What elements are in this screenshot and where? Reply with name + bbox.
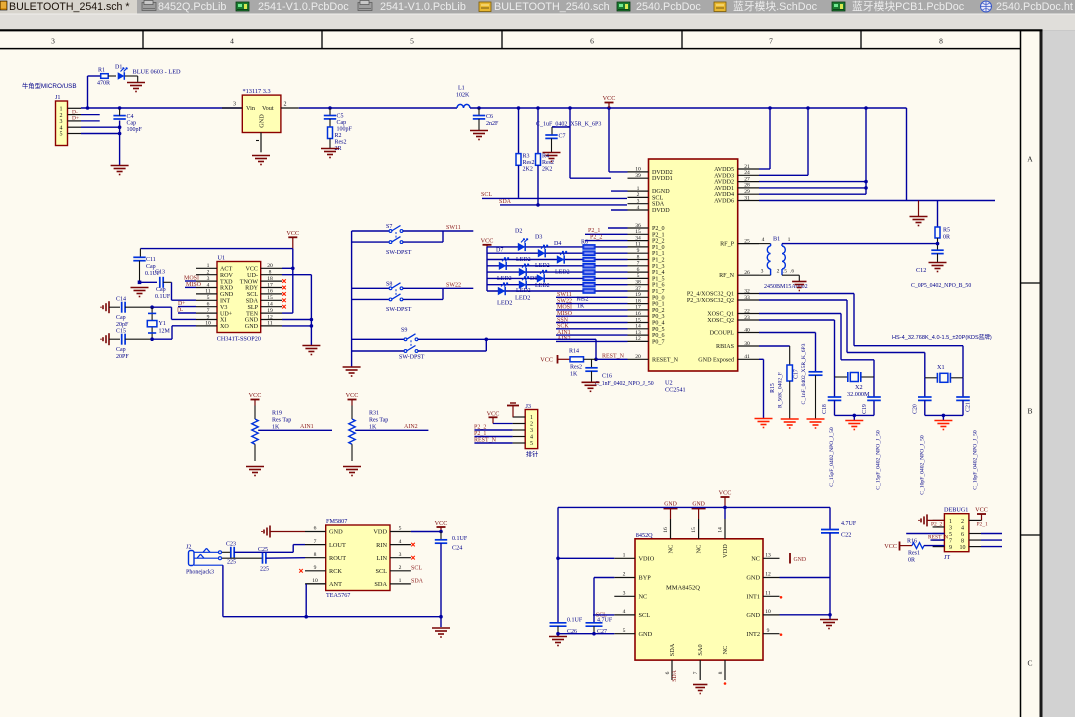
svg-text:RBIAS: RBIAS xyxy=(716,344,735,350)
ground J3 pin1 inverted xyxy=(507,403,519,417)
svg-text:28: 28 xyxy=(744,183,750,189)
MMA8452Q top pins xyxy=(663,519,729,558)
net label MISO U1 xyxy=(185,282,202,288)
svg-text:D+: D+ xyxy=(72,116,79,122)
LED D0 row 0 xyxy=(518,239,528,251)
svg-text:10: 10 xyxy=(960,545,966,551)
wire VBUS main xyxy=(81,106,242,110)
svg-text:GND Exposed: GND Exposed xyxy=(698,357,734,363)
svg-text:C19: C19 xyxy=(862,404,868,414)
svg-text:3: 3 xyxy=(623,591,626,597)
svg-text:5: 5 xyxy=(623,628,626,634)
svg-text:VCC: VCC xyxy=(719,489,732,496)
svg-text:P2_2: P2_2 xyxy=(590,234,602,240)
svg-text:GND: GND xyxy=(794,557,807,563)
svg-text:1: 1 xyxy=(623,553,626,559)
net label REST_N DEBUG xyxy=(928,535,948,541)
svg-text:BULETOOTH_2541.sch *: BULETOOTH_2541.sch * xyxy=(9,1,130,13)
svg-text:C6: C6 xyxy=(486,114,493,120)
svg-text:SW22: SW22 xyxy=(446,282,461,288)
label MICRO/USB xyxy=(22,81,77,90)
svg-text:2: 2 xyxy=(623,572,626,578)
svg-text:C15: C15 xyxy=(116,329,126,335)
wire VCC to U1 pin20 and TEN xyxy=(140,249,294,314)
ground C7 xyxy=(543,153,561,162)
svg-text:SDA: SDA xyxy=(411,578,424,584)
svg-text:RXD: RXD xyxy=(220,286,233,292)
resistor R31 Res Tap xyxy=(349,406,389,462)
svg-text:蓝牙模块.SchDoc: 蓝牙模块.SchDoc xyxy=(733,0,818,13)
svg-text:10: 10 xyxy=(635,167,641,173)
svg-text:15: 15 xyxy=(635,317,641,323)
ground C11 xyxy=(131,288,149,297)
svg-text:0.1UF: 0.1UF xyxy=(155,294,171,300)
svg-text:Cap: Cap xyxy=(337,120,347,126)
crystal Y1 12M xyxy=(147,305,170,339)
svg-text:R16: R16 xyxy=(907,538,917,544)
capacitor C5 with R2 xyxy=(324,106,353,132)
svg-text:5: 5 xyxy=(410,37,414,46)
net label SCL MMA wire xyxy=(593,613,614,619)
inductor L1 xyxy=(456,86,470,109)
svg-text:AVDD5: AVDD5 xyxy=(714,167,734,173)
svg-text:4: 4 xyxy=(399,539,402,545)
ground C24 xyxy=(432,628,450,637)
svg-text:17: 17 xyxy=(267,282,273,288)
svg-text:12: 12 xyxy=(635,336,641,342)
svg-text:C_10pF_0402_NPO_J_50: C_10pF_0402_NPO_J_50 xyxy=(973,430,979,490)
ground switch bus xyxy=(343,367,361,376)
svg-text:C25: C25 xyxy=(258,547,268,553)
svg-text:INT2: INT2 xyxy=(746,631,760,638)
svg-text:225: 225 xyxy=(227,560,236,566)
tab 2541-V1.0.PcbDoc xyxy=(236,1,349,13)
svg-text:RDY: RDY xyxy=(245,286,258,292)
svg-text:2541-V1.0.PcbDoc: 2541-V1.0.PcbDoc xyxy=(258,1,349,13)
svg-text:31: 31 xyxy=(744,195,750,201)
power port VCC MMA xyxy=(719,489,732,507)
ground C12 xyxy=(929,263,947,272)
svg-text:27: 27 xyxy=(744,176,750,182)
net label SW11 wire xyxy=(556,292,628,298)
connector J3 pin header xyxy=(513,403,539,459)
svg-text:4.7UF: 4.7UF xyxy=(841,521,857,527)
svg-text:C7: C7 xyxy=(559,134,566,140)
LED D3 row 3 xyxy=(499,258,509,270)
svg-text:INT: INT xyxy=(220,299,230,305)
capacitor C16 xyxy=(585,359,653,387)
wire U1 pin8 GND to ground xyxy=(282,275,313,345)
svg-text:12: 12 xyxy=(765,572,771,578)
no-connect RCK xyxy=(299,569,303,573)
power port VCC FM xyxy=(435,520,448,532)
net label SDA wire xyxy=(499,199,627,207)
wire Vout to rail xyxy=(299,107,457,109)
wire P1_0 row xyxy=(487,246,628,248)
crystal X1 xyxy=(925,364,963,383)
svg-text:BULETOOTH_2540.sch: BULETOOTH_2540.sch xyxy=(494,1,610,13)
svg-text:AVDD4: AVDD4 xyxy=(714,192,734,198)
svg-text:P2_3/XOSC32_Q2: P2_3/XOSC32_Q2 xyxy=(687,298,734,304)
svg-text:DCOUPL: DCOUPL xyxy=(710,331,735,337)
svg-text:P2_1: P2_1 xyxy=(977,521,989,527)
wire crystal top to XI xyxy=(152,307,196,319)
sheet outer edge right xyxy=(1040,30,1043,717)
svg-text:SCL: SCL xyxy=(411,565,422,571)
wire P1_3 row xyxy=(487,265,628,267)
FM5807 right pins xyxy=(373,526,411,588)
connector J2 Phonejack3 xyxy=(186,545,223,576)
ground DEBUG pin1 sideways xyxy=(919,514,944,526)
LED D1 row 1 xyxy=(538,245,548,257)
svg-text:XOSC_Q1: XOSC_Q1 xyxy=(707,312,734,318)
svg-text:GND: GND xyxy=(259,114,266,128)
svg-text:P2_2: P2_2 xyxy=(652,239,665,245)
svg-text:RF_N: RF_N xyxy=(719,273,735,279)
svg-text:C23: C23 xyxy=(226,542,236,548)
svg-text:Res2: Res2 xyxy=(523,160,535,166)
wire XOSC32 Q2 pin33 to X1 xyxy=(759,300,925,378)
svg-text:GND: GND xyxy=(746,612,760,619)
svg-text:P1_7: P1_7 xyxy=(652,289,665,295)
ground SA0 xyxy=(693,685,707,694)
U1 right pins xyxy=(240,263,282,330)
svg-text:D-: D- xyxy=(72,109,78,115)
wire VDIO xyxy=(556,557,614,623)
capacitor C17 on DCOUPL xyxy=(759,333,823,419)
svg-text:DEBUG1: DEBUG1 xyxy=(944,506,968,513)
svg-text:3: 3 xyxy=(761,268,764,274)
svg-text:SDA: SDA xyxy=(669,643,676,656)
svg-text:LED2: LED2 xyxy=(497,276,512,282)
svg-text:VDIO: VDIO xyxy=(639,556,655,563)
capacitor C21 xyxy=(956,378,978,490)
svg-text:C21: C21 xyxy=(966,402,972,412)
wire DEBUG pin10 xyxy=(969,546,1002,548)
svg-text:Y1: Y1 xyxy=(159,321,166,327)
ground balun xyxy=(792,282,806,291)
svg-text:C13: C13 xyxy=(155,270,165,276)
svg-text:5: 5 xyxy=(949,532,952,538)
power port VCC U1 xyxy=(286,230,299,249)
net label P2_2 DEBUG xyxy=(931,521,943,527)
LED D7 row 7 xyxy=(498,283,508,295)
svg-text:SW-DPST: SW-DPST xyxy=(386,307,412,313)
svg-text:HS-4_32.768K_4.0-1.5_±20P(KDS蓝: HS-4_32.768K_4.0-1.5_±20P(KDS蓝牌) xyxy=(892,333,992,341)
active tab BULETOOTH_2541.sch xyxy=(0,0,137,14)
svg-text:DVDD: DVDD xyxy=(652,208,670,214)
svg-text:P1_4: P1_4 xyxy=(652,270,665,276)
svg-text:SW-DPST: SW-DPST xyxy=(386,250,412,256)
wire DEBUG pin7 xyxy=(931,539,945,541)
svg-text:Phonejack3: Phonejack3 xyxy=(186,570,214,576)
svg-text:11: 11 xyxy=(205,289,211,295)
svg-text:P1_1: P1_1 xyxy=(652,251,665,257)
capacitor C4 xyxy=(113,106,142,133)
wire AVDD6 and antenna line xyxy=(759,108,995,201)
svg-text:0.1UF: 0.1UF xyxy=(567,618,583,624)
label HS-4 32.768K KDS xyxy=(892,333,992,341)
svg-text:R15: R15 xyxy=(770,383,776,393)
wire DEBUG pin6 xyxy=(969,533,1002,535)
no-connect INT2 xyxy=(780,633,783,636)
svg-text:VCC: VCC xyxy=(249,392,262,399)
wire AVDD3 to rail xyxy=(759,106,810,175)
ground antenna line xyxy=(910,201,928,226)
svg-text:7: 7 xyxy=(693,671,699,674)
svg-text:2: 2 xyxy=(637,192,640,198)
resistor R19 Res Tap xyxy=(252,406,292,462)
svg-text:40: 40 xyxy=(744,327,750,333)
capacitor C20 xyxy=(913,378,932,495)
MMA8452Q left pins xyxy=(614,553,654,638)
svg-text:U1: U1 xyxy=(218,255,226,262)
svg-text:V3: V3 xyxy=(220,305,227,311)
capacitor C7 xyxy=(545,127,570,152)
svg-text:12M: 12M xyxy=(159,329,171,335)
svg-text:SDA: SDA xyxy=(374,581,387,588)
svg-text:Res Tap: Res Tap xyxy=(272,418,291,424)
svg-text:S7: S7 xyxy=(386,224,392,230)
svg-text:3: 3 xyxy=(949,525,952,531)
svg-text:Res Tap: Res Tap xyxy=(369,418,388,424)
svg-text:GND: GND xyxy=(245,318,259,324)
gray area outside sheet right edge xyxy=(1043,31,1075,717)
svg-text:ANT: ANT xyxy=(329,581,342,588)
capacitor C24 xyxy=(435,536,468,627)
svg-text:P2_4/XOSC32_Q1: P2_4/XOSC32_Q1 xyxy=(687,292,734,298)
svg-text:1K: 1K xyxy=(570,372,578,378)
svg-text:Vin: Vin xyxy=(246,105,255,112)
net label SW22 wire xyxy=(443,282,473,288)
svg-text:RESET_N: RESET_N xyxy=(652,357,679,363)
svg-text:10: 10 xyxy=(765,609,771,615)
svg-text:15: 15 xyxy=(635,229,641,235)
svg-text:14: 14 xyxy=(267,302,273,308)
svg-text:LIN: LIN xyxy=(377,555,388,562)
wire P1_7 row xyxy=(487,290,628,292)
resistor R3 pullup xyxy=(516,106,535,197)
wire BYP to C27 xyxy=(594,578,614,623)
svg-text:P0_3: P0_3 xyxy=(652,314,665,320)
svg-text:P1_0: P1_0 xyxy=(652,245,665,251)
svg-text:Cap: Cap xyxy=(156,287,166,293)
capacitor C13 xyxy=(155,270,172,301)
svg-text:CH341T-SSOP20: CH341T-SSOP20 xyxy=(217,336,261,343)
svg-text:6: 6 xyxy=(637,267,640,273)
svg-text:XOSC_Q2: XOSC_Q2 xyxy=(707,318,734,324)
svg-text:P0_4: P0_4 xyxy=(652,321,665,327)
svg-text:NC: NC xyxy=(696,545,703,554)
net label AIN1 wire xyxy=(258,424,332,430)
svg-text:AVDD2: AVDD2 xyxy=(714,180,734,186)
svg-text:MMA8452Q: MMA8452Q xyxy=(666,585,700,592)
svg-text:C_10pF_0402_NPO_J_50: C_10pF_0402_NPO_J_50 xyxy=(920,435,926,495)
svg-text:8: 8 xyxy=(269,270,272,276)
svg-text:C_15pF_0402_NPO_J_50: C_15pF_0402_NPO_J_50 xyxy=(876,430,882,490)
svg-text:C24: C24 xyxy=(452,545,462,552)
svg-text:16: 16 xyxy=(635,311,641,317)
wire DGND stub xyxy=(611,190,628,192)
svg-text:Res2: Res2 xyxy=(542,160,554,166)
svg-text:LOUT: LOUT xyxy=(329,542,346,549)
ground C16 xyxy=(582,382,600,391)
svg-text:4: 4 xyxy=(961,525,964,531)
svg-text:0.1UF: 0.1UF xyxy=(452,536,468,542)
resistor R4 pullup xyxy=(536,106,555,204)
svg-text:DVDD1: DVDD1 xyxy=(652,176,673,182)
svg-text:P0_7: P0_7 xyxy=(652,339,665,345)
svg-text:LED2: LED2 xyxy=(516,257,531,263)
svg-text:8452Q.PcbLib: 8452Q.PcbLib xyxy=(158,1,226,13)
svg-text:*13117 3.3: *13117 3.3 xyxy=(243,88,271,95)
wire XOSC32 Q1 pin32 to X1 xyxy=(759,294,963,378)
capacitor C11 xyxy=(133,249,161,283)
svg-text:LED2: LED2 xyxy=(535,283,550,289)
ground U1 right xyxy=(302,346,320,355)
svg-text:LED2: LED2 xyxy=(497,300,512,307)
svg-text:NC: NC xyxy=(639,594,648,601)
svg-text:4: 4 xyxy=(530,435,533,441)
svg-text:2: 2 xyxy=(777,268,780,274)
svg-text:6: 6 xyxy=(961,532,964,538)
browser/document tab bar xyxy=(0,0,1075,14)
wire crystal bottom to XO xyxy=(150,326,196,341)
svg-text:AVDD1: AVDD1 xyxy=(714,186,734,192)
svg-text:VDD: VDD xyxy=(373,529,387,536)
svg-text:5: 5 xyxy=(60,132,63,138)
net label MOSI wire xyxy=(556,305,628,311)
wire VDD to C24 xyxy=(411,530,443,540)
power port VCC R16 sideways xyxy=(884,542,912,551)
svg-text:1: 1 xyxy=(788,237,791,243)
svg-text:20PF: 20PF xyxy=(116,354,129,360)
svg-text:20pF: 20pF xyxy=(116,322,129,328)
svg-text:RIN: RIN xyxy=(376,542,387,549)
svg-text:8: 8 xyxy=(961,538,964,544)
power port VCC R14 sideways xyxy=(540,355,570,364)
svg-text:9: 9 xyxy=(637,248,640,254)
svg-text:2K2: 2K2 xyxy=(523,167,533,173)
svg-text:TEN: TEN xyxy=(246,311,258,317)
svg-text:C5: C5 xyxy=(337,114,344,120)
net label SCL wire xyxy=(481,192,627,198)
switch S9 xyxy=(352,328,489,361)
ground pin41 xyxy=(755,419,773,428)
capacitor C25 and ROUT wire xyxy=(222,547,305,573)
svg-text:Cap: Cap xyxy=(127,121,137,127)
net label AIN2 wire xyxy=(355,424,428,430)
svg-text:39: 39 xyxy=(635,173,641,179)
svg-text:B1: B1 xyxy=(773,236,780,243)
net label AIN2 wire xyxy=(556,336,628,342)
wire AVDD2 AVDD1 AVDD4 to rail xyxy=(759,106,868,194)
no-connect marks RIN LIN xyxy=(411,543,415,560)
svg-text:41: 41 xyxy=(744,354,750,360)
svg-text:R_56K_0402_F: R_56K_0402_F xyxy=(778,372,784,408)
svg-text:VCC: VCC xyxy=(603,95,616,102)
svg-text:2540.PcbDoc.ht: 2540.PcbDoc.ht xyxy=(996,1,1073,13)
ground C26 C27 rail xyxy=(549,632,614,646)
svg-text:XI: XI xyxy=(220,318,226,324)
U2 left pins xyxy=(628,167,679,364)
svg-text:VCC: VCC xyxy=(245,267,258,273)
svg-text:X2: X2 xyxy=(855,384,863,391)
switch bus vertical xyxy=(351,231,353,367)
wire VCC to DVDD2 xyxy=(609,108,628,172)
capacitor C26 xyxy=(550,618,583,636)
svg-text:GND: GND xyxy=(692,502,705,508)
resistor R2 xyxy=(328,127,347,152)
svg-text:4: 4 xyxy=(230,37,234,46)
capacitor C15 xyxy=(101,329,152,361)
power port VCC DEBUG right xyxy=(969,506,988,520)
svg-text:牛角型MICRO/USB: 牛角型MICRO/USB xyxy=(22,81,77,90)
svg-text:21: 21 xyxy=(744,164,750,170)
connector DEBUG1 body xyxy=(933,506,969,561)
svg-text:7: 7 xyxy=(949,538,952,544)
svg-text:7: 7 xyxy=(314,539,317,545)
no-connect pin8 xyxy=(724,682,727,685)
svg-text:VCC: VCC xyxy=(435,520,448,527)
svg-text:6: 6 xyxy=(590,37,594,46)
svg-text:XO: XO xyxy=(220,324,229,330)
svg-text:C: C xyxy=(1027,659,1032,668)
svg-text:1: 1 xyxy=(949,519,952,525)
svg-text:.6: .6 xyxy=(790,268,794,274)
svg-text:AIN2: AIN2 xyxy=(404,424,418,430)
svg-text:32.000M: 32.000M xyxy=(847,391,870,398)
svg-text:Cap: Cap xyxy=(116,347,126,353)
ground bar pin15 xyxy=(692,502,706,520)
svg-text:RCK: RCK xyxy=(329,568,342,575)
label C7 value xyxy=(536,122,601,128)
svg-text:0R: 0R xyxy=(943,235,950,241)
svg-text:X1: X1 xyxy=(937,364,945,371)
svg-text:DGND: DGND xyxy=(652,189,670,195)
svg-text:蓝牙模块PCB1.PcbDoc: 蓝牙模块PCB1.PcbDoc xyxy=(852,0,965,13)
svg-text:LED2: LED2 xyxy=(516,288,531,294)
svg-text:Vout: Vout xyxy=(262,105,274,112)
svg-text:Res1: Res1 xyxy=(908,551,920,557)
LED D6 row 6 xyxy=(519,277,529,289)
svg-text:GND: GND xyxy=(329,529,343,536)
svg-text:Res2: Res2 xyxy=(570,365,582,371)
svg-text:REST_N: REST_N xyxy=(602,353,625,359)
svg-text:VCC: VCC xyxy=(286,230,299,237)
svg-text:2: 2 xyxy=(284,101,287,107)
svg-text:6: 6 xyxy=(314,526,317,532)
svg-text:INT1: INT1 xyxy=(746,594,760,601)
svg-text:23: 23 xyxy=(744,315,750,321)
ground C6 xyxy=(470,131,488,140)
capacitor C12 xyxy=(911,250,971,289)
svg-text:22: 22 xyxy=(744,308,750,314)
svg-text:17: 17 xyxy=(635,305,641,311)
svg-text:8: 8 xyxy=(939,37,943,46)
connector J1 xyxy=(55,94,81,146)
svg-text:26: 26 xyxy=(744,270,750,276)
ground bar pin16 xyxy=(664,502,678,520)
svg-text:30: 30 xyxy=(744,341,750,347)
svg-text:P0_2: P0_2 xyxy=(652,308,665,314)
power port VCC R19 xyxy=(249,392,262,406)
svg-text:7: 7 xyxy=(207,308,210,314)
svg-text:VCC: VCC xyxy=(481,237,494,244)
net label SSN wire xyxy=(556,317,628,323)
svg-text:16: 16 xyxy=(267,289,273,295)
svg-text:SCL: SCL xyxy=(247,292,258,298)
